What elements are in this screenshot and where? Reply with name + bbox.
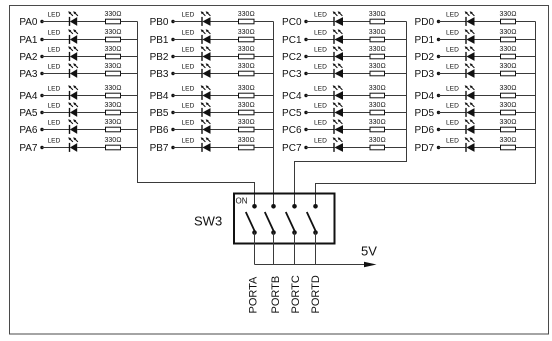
wire [77,112,105,114]
svg-text:PC7: PC7 [282,143,302,154]
svg-text:PA0: PA0 [19,17,38,28]
svg-text:PD1: PD1 [415,35,435,46]
LED PD6 [446,119,475,134]
svg-text:PA4: PA4 [19,91,38,102]
svg-text:LED: LED [182,102,195,109]
resistor 330&#937; (PC1) [369,29,386,42]
svg-text:LED: LED [314,46,327,53]
resistor 330&#937; (PB6) [238,119,255,132]
svg-text:330Ω: 330Ω [369,137,386,144]
LED PC5 [314,102,343,117]
wire [343,73,370,75]
resistor 330&#937; (PD3) [499,63,516,76]
svg-text:LED: LED [446,85,459,92]
LED PB6 [182,119,211,134]
LED PB4 [182,85,211,100]
LED PD1 [446,29,475,44]
wire [475,129,501,131]
svg-text:PC6: PC6 [282,125,302,136]
wire [475,56,501,58]
wire [121,95,138,97]
resistor 330&#937; (PB5) [238,102,255,115]
svg-text:PD2: PD2 [415,52,435,63]
svg-text:PC1: PC1 [282,35,302,46]
wire [211,129,239,131]
resistor 330&#937; (PD1) [499,29,516,42]
wire [306,73,334,75]
wire [343,129,370,131]
wire [254,21,274,23]
svg-text:PB1: PB1 [150,35,169,46]
svg-text:LED: LED [182,63,195,70]
LED PD4 [446,85,475,100]
svg-text:330Ω: 330Ω [499,137,516,144]
svg-text:330Ω: 330Ω [499,11,516,18]
wire [211,21,239,23]
svg-text:LED: LED [48,46,61,53]
svg-text:PORTA: PORTA [248,276,260,314]
node PA3 [19,69,43,80]
wire [173,129,202,131]
svg-text:330Ω: 330Ω [238,11,255,18]
svg-text:330Ω: 330Ω [499,63,516,70]
wire [121,73,138,75]
LED PA2 [48,46,78,61]
resistor 330&#937; (PC5) [369,102,386,115]
node PB5 [150,108,175,119]
svg-text:PD5: PD5 [415,108,435,119]
wire [475,147,501,149]
resistor 330&#937; (PB2) [238,46,255,59]
node PD2 [415,52,441,63]
LED PA7 [48,137,78,152]
svg-text:PA7: PA7 [19,143,38,154]
wire [173,73,202,75]
node PC0 [282,17,308,28]
svg-text:330Ω: 330Ω [238,85,255,92]
wire [306,147,334,149]
node PB1 [150,35,175,46]
resistor 330&#937; (PC3) [369,63,386,76]
wire [385,95,407,97]
wire [121,56,138,58]
svg-text:ON: ON [236,197,248,206]
switch SW3 pole 1 [246,204,257,235]
wire [254,39,274,41]
svg-text:PD0: PD0 [415,17,435,28]
wire [294,233,296,265]
svg-text:330Ω: 330Ω [104,102,121,109]
wire [254,56,274,58]
wire [173,39,202,41]
resistor 330&#937; (PB7) [238,137,255,150]
node PC1 [282,35,308,46]
node PA7 [19,143,43,154]
svg-text:PB7: PB7 [150,143,169,154]
LED PA0 [48,11,78,26]
svg-text:PA3: PA3 [19,69,38,80]
svg-text:PB4: PB4 [150,91,169,102]
LED PA4 [48,85,78,100]
resistor 330&#937; (PA1) [104,29,121,42]
wire [42,147,70,149]
wire [516,129,536,131]
wire [516,147,536,149]
LED PB1 [182,29,211,44]
wire [211,73,239,75]
svg-text:LED: LED [446,137,459,144]
wire PD bus to switch [316,22,536,207]
node PB0 [150,17,175,28]
svg-text:LED: LED [48,102,61,109]
svg-text:LED: LED [182,85,195,92]
node PB7 [150,143,175,154]
LED PD2 [446,46,475,61]
svg-text:PB6: PB6 [150,125,169,136]
LED PD3 [446,63,475,78]
switch SW3 pole 2 [265,204,276,235]
node PA1 [19,35,43,46]
node PD3 [415,69,441,80]
svg-text:LED: LED [314,137,327,144]
wire [306,112,334,114]
wire [254,147,274,149]
resistor 330&#937; (PB4) [238,85,255,98]
wire [385,147,407,149]
wire PC bus to switch [295,22,407,207]
wire [42,56,70,58]
svg-text:330Ω: 330Ω [499,85,516,92]
svg-text:LED: LED [48,85,61,92]
svg-text:330Ω: 330Ω [104,11,121,18]
node PD1 [415,35,441,46]
wire [211,147,239,149]
LED PC3 [314,63,343,78]
resistor 330&#937; (PA5) [104,102,121,115]
power 5V rail [255,262,377,267]
wire [121,129,138,131]
svg-text:LED: LED [182,119,195,126]
LED PC1 [314,29,343,44]
resistor 330&#937; (PC4) [369,85,386,98]
svg-text:LED: LED [446,63,459,70]
svg-text:LED: LED [446,46,459,53]
svg-text:PC5: PC5 [282,108,302,119]
resistor 330&#937; (PB1) [238,29,255,42]
svg-text:LED: LED [446,29,459,36]
svg-text:330Ω: 330Ω [369,102,386,109]
wire [77,147,105,149]
LED PC0 [314,11,343,26]
wire [211,56,239,58]
wire [254,129,274,131]
wire [516,112,536,114]
svg-text:330Ω: 330Ω [238,102,255,109]
wire [343,147,370,149]
svg-text:LED: LED [314,119,327,126]
wire [475,112,501,114]
wire [439,112,467,114]
LED PA3 [48,63,78,78]
resistor 330&#937; (PD2) [499,46,516,59]
node PC2 [282,52,308,63]
wire [211,112,239,114]
svg-text:PC3: PC3 [282,69,302,80]
svg-text:LED: LED [446,102,459,109]
svg-text:330Ω: 330Ω [369,119,386,126]
svg-text:PC2: PC2 [282,52,302,63]
wire [306,56,334,58]
node PA0 [19,17,43,28]
wire [254,233,256,265]
resistor 330&#937; (PD5) [499,102,516,115]
svg-text:PORTD: PORTD [310,275,322,313]
resistor 330&#937; (PD4) [499,85,516,98]
wire [173,147,202,149]
node PA2 [19,52,43,63]
LED PC7 [314,137,343,152]
wire [42,112,70,114]
LED PC6 [314,119,343,134]
svg-text:PD4: PD4 [415,91,435,102]
svg-text:LED: LED [182,46,195,53]
svg-text:PD7: PD7 [415,143,435,154]
svg-text:LED: LED [314,11,327,18]
node PB4 [150,91,175,102]
node PA4 [19,91,43,102]
svg-text:330Ω: 330Ω [104,63,121,70]
LED PB2 [182,46,211,61]
wire [475,21,501,23]
resistor 330&#937; (PB0) [238,11,255,24]
wire [475,39,501,41]
LED PB0 [182,11,211,26]
LED PC2 [314,46,343,61]
wire [77,21,105,23]
switch SW3 body [234,194,335,244]
wire [173,21,202,23]
wire [385,112,407,114]
wire PB bus to switch [273,22,275,207]
svg-text:LED: LED [48,63,61,70]
wire [439,73,467,75]
LED PA1 [48,29,78,44]
resistor 330&#937; (PD0) [499,11,516,24]
resistor 330&#937; (PC6) [369,119,386,132]
svg-text:LED: LED [446,119,459,126]
wire [343,95,370,97]
wire PA bus to switch [138,22,255,207]
svg-text:PORTB: PORTB [270,276,282,314]
svg-text:330Ω: 330Ω [104,137,121,144]
svg-text:LED: LED [182,137,195,144]
node PB2 [150,52,175,63]
svg-text:330Ω: 330Ω [238,46,255,53]
svg-text:PA5: PA5 [19,108,38,119]
wire [254,73,274,75]
wire [77,56,105,58]
wire [254,95,274,97]
resistor 330&#937; (PA3) [104,63,121,76]
resistor 330&#937; (PA0) [104,11,121,24]
svg-text:PB2: PB2 [150,52,169,63]
node PA5 [19,108,43,119]
switch SW3 pole 3 [286,204,297,235]
wire [77,39,105,41]
svg-text:LED: LED [182,11,195,18]
svg-text:330Ω: 330Ω [369,29,386,36]
wire [121,21,138,23]
wire [385,73,407,75]
svg-text:LED: LED [182,29,195,36]
svg-text:330Ω: 330Ω [238,137,255,144]
svg-text:PORTC: PORTC [290,275,302,313]
resistor 330&#937; (PA2) [104,46,121,59]
svg-text:LED: LED [48,11,61,18]
svg-text:330Ω: 330Ω [499,46,516,53]
LED PB3 [182,63,211,78]
node PC7 [282,143,308,154]
node PC3 [282,69,308,80]
LED PB7 [182,137,211,152]
node PD6 [415,125,441,136]
wire [516,95,536,97]
svg-text:330Ω: 330Ω [104,29,121,36]
node PD0 [415,17,441,28]
wire [343,112,370,114]
wire [439,147,467,149]
svg-text:PD3: PD3 [415,69,435,80]
wire [306,129,334,131]
svg-text:330Ω: 330Ω [499,119,516,126]
wire [315,233,317,265]
resistor 330&#937; (PA6) [104,119,121,132]
svg-text:330Ω: 330Ω [104,46,121,53]
wire [439,129,467,131]
svg-text:PA1: PA1 [19,35,38,46]
LED PD7 [446,137,475,152]
switch SW3 pole 4 [307,204,318,235]
wire [516,56,536,58]
LED PD0 [446,11,475,26]
wire [211,39,239,41]
resistor 330&#937; (PC2) [369,46,386,59]
svg-text:LED: LED [314,63,327,70]
wire [516,39,536,41]
wire [211,95,239,97]
svg-text:PB5: PB5 [150,108,169,119]
resistor 330&#937; (PA4) [104,85,121,98]
wire [385,39,407,41]
wire [77,95,105,97]
wire [273,233,275,265]
wire [173,95,202,97]
wire [306,21,334,23]
svg-text:PC0: PC0 [282,17,302,28]
wire [516,73,536,75]
wire [77,129,105,131]
svg-text:330Ω: 330Ω [499,102,516,109]
svg-text:LED: LED [446,11,459,18]
node PA6 [19,125,43,136]
svg-text:LED: LED [314,29,327,36]
svg-text:LED: LED [48,29,61,36]
svg-text:330Ω: 330Ω [238,119,255,126]
resistor 330&#937; (PD7) [499,137,516,150]
svg-text:LED: LED [314,85,327,92]
wire [439,21,467,23]
wire [254,112,274,114]
wire [385,56,407,58]
svg-text:PB3: PB3 [150,69,169,80]
svg-text:LED: LED [48,137,61,144]
node PB3 [150,69,175,80]
node PD7 [415,143,441,154]
svg-text:PB0: PB0 [150,17,169,28]
svg-text:5V: 5V [361,244,377,259]
LED PA5 [48,102,78,117]
wire [121,112,138,114]
wire [385,21,407,23]
node PD4 [415,91,441,102]
LED PD5 [446,102,475,117]
svg-text:330Ω: 330Ω [369,63,386,70]
wire [121,147,138,149]
svg-text:330Ω: 330Ω [104,85,121,92]
wire [475,73,501,75]
svg-text:330Ω: 330Ω [369,11,386,18]
wire [42,39,70,41]
wire [343,39,370,41]
svg-text:SW3: SW3 [194,214,222,229]
wire [516,21,536,23]
wire [42,95,70,97]
node PB6 [150,125,175,136]
node PC5 [282,108,308,119]
resistor 330&#937; (PA7) [104,137,121,150]
wire [42,73,70,75]
wire [306,95,334,97]
wire [173,56,202,58]
wire [439,95,467,97]
wire [121,39,138,41]
node PD5 [415,108,441,119]
wire [385,129,407,131]
wire [306,39,334,41]
node PC6 [282,125,308,136]
wire [173,112,202,114]
wire [439,39,467,41]
resistor 330&#937; (PC0) [369,11,386,24]
resistor 330&#937; (PD6) [499,119,516,132]
node PC4 [282,91,308,102]
svg-text:PD6: PD6 [415,125,435,136]
LED PC4 [314,85,343,100]
resistor 330&#937; (PB3) [238,63,255,76]
svg-text:330Ω: 330Ω [104,119,121,126]
svg-text:PA2: PA2 [19,52,38,63]
svg-text:330Ω: 330Ω [238,29,255,36]
resistor 330&#937; (PC7) [369,137,386,150]
wire [42,21,70,23]
svg-text:330Ω: 330Ω [369,85,386,92]
wire [343,56,370,58]
wire [439,56,467,58]
LED PA6 [48,119,78,134]
svg-text:330Ω: 330Ω [238,63,255,70]
wire [475,95,501,97]
svg-text:LED: LED [48,119,61,126]
